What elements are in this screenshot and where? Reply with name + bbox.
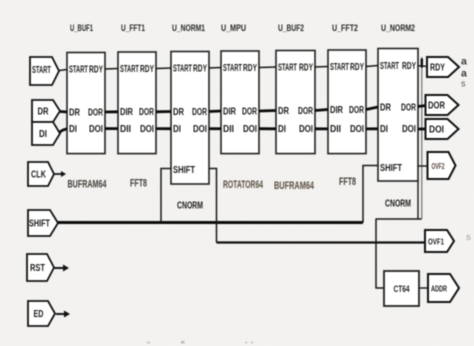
wire DR to U_BUF1 (bold) <box>60 110 67 113</box>
svg-text:DOR: DOR <box>428 100 446 111</box>
svg-text:s: s <box>461 79 466 89</box>
svg-text:U_NORM1: U_NORM1 <box>172 23 205 33</box>
svg-text:START: START <box>278 62 297 73</box>
svg-text:SHIFT: SHIFT <box>29 218 50 229</box>
output port DOI <box>426 119 459 139</box>
block U_BUF2 (BUFRAM64) <box>276 23 315 154</box>
svg-text:DII: DII <box>223 124 234 135</box>
svg-text:SHIFT: SHIFT <box>173 165 195 176</box>
svg-text:DOI: DOI <box>140 124 154 135</box>
wire RDY out <box>418 65 427 68</box>
wire DOR chain (bold) <box>105 107 378 112</box>
input port DI <box>32 122 60 145</box>
svg-text:DOI: DOI <box>193 124 207 135</box>
svg-text:RST: RST <box>30 263 45 274</box>
output port ADDR <box>428 274 459 302</box>
svg-text:RDY: RDY <box>430 62 445 73</box>
wire START to U_BUF1 <box>59 70 67 71</box>
svg-text:BUFRAM64: BUFRAM64 <box>68 179 108 191</box>
svg-text:START: START <box>380 61 399 72</box>
svg-text:DR: DR <box>173 107 185 118</box>
wire OVF2 out <box>418 165 428 167</box>
artifact double line right of U_NORM2 <box>421 57 423 219</box>
arrow RST <box>54 265 69 272</box>
svg-text:U_MPU: U_MPU <box>221 23 246 33</box>
svg-text:DI: DI <box>69 124 77 135</box>
block U_NORM2 (CNORM) <box>376 23 422 219</box>
svg-text:DOI: DOI <box>350 124 364 135</box>
svg-text:DI: DI <box>278 124 286 135</box>
svg-text:DOI: DOI <box>89 124 103 135</box>
svg-text:BUFRAM64: BUFRAM64 <box>274 180 315 192</box>
svg-text:DOI: DOI <box>402 124 416 135</box>
svg-text:RDY: RDY <box>140 64 154 75</box>
svg-text:DR: DR <box>278 106 290 117</box>
svg-text:DOI: DOI <box>243 124 257 135</box>
svg-text:ED: ED <box>34 309 44 320</box>
wire SHIFT riser to U_NORM2 <box>363 166 378 223</box>
svg-text:RDY: RDY <box>299 62 313 73</box>
svg-text:SHIFT: SHIFT <box>380 163 402 174</box>
svg-text:U_BUF1: U_BUF1 <box>70 23 93 33</box>
svg-text:START: START <box>330 62 349 73</box>
block U_FFT1 (FFT8) <box>118 23 156 154</box>
wire DOI chain (bold) <box>105 127 378 130</box>
svg-text:RDY: RDY <box>193 63 207 74</box>
block U_BUF1 (BUFRAM64) <box>67 23 105 154</box>
wire CT64 to ADDR <box>419 287 428 289</box>
svg-text:CLK: CLK <box>31 169 47 180</box>
svg-text:U_NORM2: U_NORM2 <box>381 23 415 33</box>
svg-text:CNORM: CNORM <box>177 200 203 212</box>
svg-text:CT64: CT64 <box>394 284 410 294</box>
svg-text:DIR: DIR <box>120 107 134 118</box>
output port DOR <box>426 95 459 115</box>
svg-text:DOR: DOR <box>401 102 417 113</box>
svg-text:DII: DII <box>330 124 341 135</box>
svg-text:DR: DR <box>38 106 50 117</box>
output port RDY <box>427 57 459 77</box>
input port DR <box>32 100 60 122</box>
svg-text:RDY: RDY <box>350 62 364 73</box>
svg-text:DII: DII <box>120 124 131 135</box>
svg-text:START: START <box>120 64 139 75</box>
svg-text:DIR: DIR <box>330 105 344 116</box>
wire RDY/START chain <box>105 66 378 70</box>
block U_FFT2 (FFT8) <box>328 23 366 154</box>
svg-text:DIR: DIR <box>223 106 237 117</box>
wire DOR out (bold) <box>418 106 426 107</box>
svg-text:DI: DI <box>380 124 388 135</box>
input port SHIFT <box>28 210 58 236</box>
svg-text:DOR: DOR <box>139 107 155 118</box>
svg-text:START: START <box>173 63 192 74</box>
svg-text:DI: DI <box>39 129 47 140</box>
wire DI to U_BUF1 (bold) <box>59 129 67 133</box>
svg-text:a: a <box>461 56 467 68</box>
wire SHIFT bus (bold) <box>58 221 363 224</box>
svg-text:DOR: DOR <box>242 106 258 117</box>
svg-text:U_FFT2: U_FFT2 <box>332 23 358 33</box>
wire DOI out (bold) <box>418 128 426 131</box>
svg-text:DI: DI <box>173 124 181 135</box>
arrow ED <box>56 311 70 318</box>
svg-text:START: START <box>32 65 51 76</box>
svg-text:START: START <box>223 63 242 74</box>
svg-text:U_FFT1: U_FFT1 <box>121 23 145 33</box>
output port OVF1 <box>425 230 454 252</box>
junction tick on RDY wire <box>421 59 423 68</box>
svg-text:DOR: DOR <box>88 107 104 118</box>
svg-text:DR: DR <box>69 107 81 118</box>
svg-text:ADDR: ADDR <box>431 284 447 293</box>
svg-text:DOI: DOI <box>429 124 444 135</box>
input port RST <box>27 254 54 281</box>
arrow CLK <box>54 171 66 177</box>
wire SHIFT riser to U_NORM1 <box>161 169 171 223</box>
svg-text:OVF2: OVF2 <box>432 162 445 171</box>
input port ED <box>28 301 55 326</box>
svg-text:OVF1: OVF1 <box>428 237 444 246</box>
svg-text:ROTATOR64: ROTATOR64 <box>223 179 264 191</box>
svg-text:s: s <box>466 232 471 243</box>
block U_MPU (ROTATOR64) <box>221 23 259 154</box>
svg-text:DOR: DOR <box>349 105 365 116</box>
svg-text:FFT8: FFT8 <box>130 178 147 190</box>
faint caption remnants at bottom <box>147 342 150 344</box>
wire drop from U_NORM2 to CT64 <box>376 219 384 288</box>
svg-text:CNORM: CNORM <box>385 198 411 210</box>
input port CLK <box>28 162 54 186</box>
svg-text:DOR: DOR <box>192 107 208 118</box>
svg-text:DOI: DOI <box>299 124 313 135</box>
svg-text:DOR: DOR <box>298 106 314 117</box>
svg-text:RDY: RDY <box>402 61 416 72</box>
svg-text:U_BUF2: U_BUF2 <box>278 23 304 33</box>
wire OVF from U_NORM1 to OVF1 (down and right) <box>209 169 217 243</box>
block CT64 address counter <box>384 271 419 306</box>
input port START <box>30 57 59 85</box>
svg-text:RDY: RDY <box>89 64 103 75</box>
svg-text:RDY: RDY <box>243 63 257 74</box>
output port OVF2 <box>428 152 456 179</box>
svg-text:FFT8: FFT8 <box>339 176 356 188</box>
block U_NORM1 (CNORM) <box>171 23 209 212</box>
svg-text:DR: DR <box>380 102 392 113</box>
svg-text:START: START <box>69 64 88 75</box>
